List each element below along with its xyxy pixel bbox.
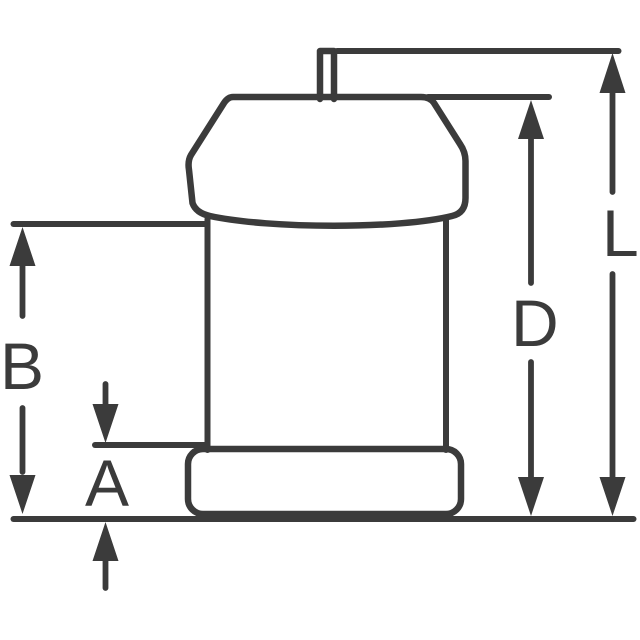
arrowhead D up <box>518 100 544 139</box>
arrowhead D down <box>518 477 544 516</box>
wire: A top extension line <box>95 442 207 448</box>
wire: L top extension line <box>337 48 619 54</box>
svg-text:D: D <box>511 286 559 360</box>
capacitor base (bottom block) <box>188 449 461 514</box>
dimension L lower arrow shaft <box>610 274 616 478</box>
dimension D lower arrow shaft <box>528 362 534 478</box>
svg-text:L: L <box>602 196 639 270</box>
svg-text:B: B <box>0 329 44 403</box>
arrowhead B up <box>10 227 36 266</box>
svg-text:A: A <box>85 446 129 520</box>
arrowhead L up <box>600 53 626 93</box>
capacitor body left edge <box>205 219 211 450</box>
dimension A upper arrow shaft <box>103 384 109 404</box>
wire: D top extension line <box>428 94 549 100</box>
dimension D upper arrow shaft <box>528 136 534 283</box>
arrowhead B down <box>10 475 36 514</box>
arrowhead A up <box>93 522 119 561</box>
dimension L upper arrow shaft <box>610 90 616 192</box>
arrowhead L down <box>600 477 626 516</box>
lead pin on top of capacitor <box>320 51 334 99</box>
dimension A lower arrow shaft <box>103 558 109 588</box>
dimension B upper arrow shaft <box>20 262 26 316</box>
arrowhead A down <box>93 404 119 443</box>
capacitor cap (top section) outline <box>189 97 466 226</box>
wire: seating plane baseline <box>14 516 634 522</box>
wire: B top extension line <box>14 221 206 227</box>
dimension B lower arrow shaft <box>20 408 26 472</box>
capacitor body right edge <box>443 219 449 450</box>
